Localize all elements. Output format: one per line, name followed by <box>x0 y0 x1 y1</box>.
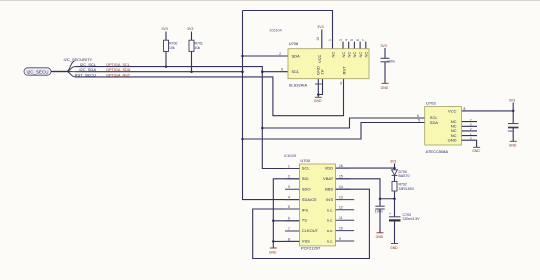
wire OPTIGA_SDA row <box>75 71 243 73</box>
svg-text:BBS: BBS <box>325 187 333 192</box>
svg-text:100n: 100n <box>387 60 395 64</box>
power 3V3 R700 <box>162 27 168 31</box>
wire R702 to battery node <box>394 191 396 217</box>
svg-text:10: 10 <box>316 37 320 41</box>
RTC right pin numbers <box>339 164 343 241</box>
svg-text:SDI: SDI <box>302 176 309 181</box>
svg-text:VBAT: VBAT <box>323 176 334 181</box>
svg-text:100n: 100n <box>508 129 515 133</box>
svg-text:3: 3 <box>288 185 290 189</box>
svg-text:12: 12 <box>339 206 343 210</box>
svg-text:SDA/CE: SDA/CE <box>302 197 317 202</box>
svg-text:6: 6 <box>417 114 419 118</box>
svg-text:3V3: 3V3 <box>187 27 193 31</box>
ground top IC TP <box>314 97 322 103</box>
rotated NC pin numbers top IC <box>328 39 365 41</box>
svg-text:4: 4 <box>345 39 349 41</box>
wire top IC GND TP pins <box>318 79 322 97</box>
bus fan-out curves <box>67 67 76 72</box>
svg-text:n.c.: n.c. <box>327 228 333 233</box>
svg-text:CLKOUT: CLKOUT <box>302 228 319 233</box>
RTC right pin names <box>323 166 334 244</box>
svg-text:NC: NC <box>341 52 346 58</box>
svg-text:RST: RST <box>341 66 346 75</box>
svg-text:ATECC508A: ATECC508A <box>426 149 449 154</box>
svg-text:TS: TS <box>302 218 307 223</box>
svg-text:SCL: SCL <box>292 69 301 74</box>
pin17 tick <box>315 83 322 85</box>
harness line <box>51 71 67 73</box>
IC U700 PCF2129T body <box>299 164 335 246</box>
wire SDA pin stub top IC <box>243 55 289 57</box>
svg-text:3V3: 3V3 <box>162 27 168 31</box>
wire diode to resistor R702 <box>394 176 396 182</box>
svg-text:IC6104: IC6104 <box>270 28 282 32</box>
svg-text:R700: R700 <box>169 41 177 45</box>
wire OPTIGA_SCL row <box>75 67 288 72</box>
ground C703 <box>390 244 398 250</box>
power 3V3 RTC column <box>390 160 396 164</box>
svg-text:NC: NC <box>352 52 357 58</box>
ground RTC chain <box>269 248 277 254</box>
svg-text:GND: GND <box>376 235 384 239</box>
diode D700 BAS70 <box>392 170 398 176</box>
svg-text:VCC: VCC <box>448 108 457 113</box>
decoupling cap column top IC <box>384 48 386 83</box>
svg-text:7: 7 <box>362 39 366 41</box>
ground ATECC pins <box>472 147 480 153</box>
svg-text:BAS70: BAS70 <box>399 174 410 178</box>
resistor R702 <box>392 182 415 192</box>
svg-text:GND: GND <box>390 246 398 250</box>
svg-text:5: 5 <box>418 119 420 123</box>
svg-text:TP: TP <box>320 69 325 74</box>
svg-text:6: 6 <box>356 39 360 41</box>
svg-text:VSS: VSS <box>302 239 310 244</box>
svg-text:15: 15 <box>339 175 343 179</box>
svg-text:1: 1 <box>288 164 290 168</box>
resistor R701 leads <box>191 32 193 72</box>
svg-text:VDD: VDD <box>325 166 334 171</box>
svg-text:9: 9 <box>339 237 341 241</box>
wire RTC TS to ground chain <box>273 220 299 222</box>
svg-text:GND: GND <box>448 138 457 143</box>
wire RTC VDD to supply column <box>336 167 395 169</box>
svg-text:2: 2 <box>279 52 281 56</box>
svg-text:5: 5 <box>288 205 290 209</box>
ground ATECC cap <box>509 141 517 147</box>
svg-text:1: 1 <box>328 39 332 41</box>
resistor R700 <box>164 40 178 51</box>
svg-text:NC: NC <box>358 52 363 58</box>
svg-text:11: 11 <box>339 216 343 220</box>
ATECC left pin stubs <box>413 118 425 123</box>
wire SDA main vertical <box>243 11 300 200</box>
svg-text:U700: U700 <box>300 158 310 163</box>
svg-text:n.c.: n.c. <box>327 218 333 223</box>
svg-text:+: + <box>389 212 391 216</box>
svg-text:SDO: SDO <box>302 187 311 192</box>
wire top IC VCC pin stub <box>321 30 323 49</box>
capacitor C703 electrolytic <box>389 212 401 222</box>
svg-text:9: 9 <box>340 81 342 85</box>
svg-text:U706: U706 <box>289 41 299 46</box>
RTC left pin numbers <box>288 164 290 241</box>
wire RTC IFS-BBS loop <box>253 189 370 258</box>
svg-text:IFS: IFS <box>302 207 309 212</box>
ATECC left pin names <box>430 115 439 125</box>
ATECC VCC wire <box>462 110 514 112</box>
resistor R700 leads <box>165 32 167 67</box>
svg-text:2: 2 <box>288 175 290 179</box>
svg-text:220m/3.3V: 220m/3.3V <box>403 217 421 221</box>
svg-text:8: 8 <box>281 68 283 72</box>
svg-text:3V3: 3V3 <box>381 44 387 48</box>
svg-text:n.c.: n.c. <box>327 207 333 212</box>
svg-text:3V3: 3V3 <box>390 160 396 164</box>
svg-text:RST_SECU: RST_SECU <box>75 72 96 77</box>
svg-text:U703: U703 <box>426 101 436 106</box>
svg-text:33R/150V: 33R/150V <box>399 187 415 191</box>
wire supply column VCC to diode <box>394 164 396 170</box>
svg-text:VCC: VCC <box>317 54 322 63</box>
wire SDA top route to pin1 NC <box>243 11 333 49</box>
svg-text:100n: 100n <box>375 210 383 214</box>
wire VBAT backup cap leads <box>379 199 381 233</box>
svg-text:R701: R701 <box>195 41 203 45</box>
svg-text:4: 4 <box>288 196 290 200</box>
wire RTC VSS to ground chain <box>273 240 299 242</box>
wire C703 to GND <box>394 222 396 244</box>
svg-text:10: 10 <box>339 227 343 231</box>
resistor R701 <box>189 40 203 51</box>
svg-text:IC6105: IC6105 <box>284 154 296 158</box>
svg-text:OPTIGA_SCL: OPTIGA_SCL <box>106 63 130 67</box>
svg-text:3V3: 3V3 <box>317 25 323 29</box>
svg-text:5: 5 <box>350 39 354 41</box>
ATECC pin numbers <box>417 107 472 141</box>
capacitor 100n VBAT <box>375 206 384 209</box>
svg-text:GND: GND <box>269 250 277 254</box>
wire RTC VBAT to battery node <box>336 179 395 199</box>
wire top IC NC stubs <box>343 42 366 49</box>
wire SCL branch to ATECC <box>262 118 424 128</box>
power 3V3 R701 <box>187 27 193 31</box>
rotated NC names top IC <box>330 52 368 58</box>
svg-text:PCF2129T: PCF2129T <box>301 246 321 251</box>
IC U703 ATECC508A body <box>425 107 462 145</box>
svg-text:NC: NC <box>347 52 352 58</box>
svg-text:14: 14 <box>339 185 343 189</box>
wire RTC SDI ground chain <box>273 179 299 248</box>
svg-text:OPTIGA_SDA: OPTIGA_SDA <box>106 68 131 72</box>
svg-text:GND: GND <box>314 99 322 103</box>
svg-text:16: 16 <box>339 164 343 168</box>
wire SCL vertical to RTC pin1 <box>262 72 299 169</box>
svg-text:SDA: SDA <box>430 120 439 125</box>
svg-text:10k: 10k <box>195 46 201 50</box>
svg-text:NC: NC <box>330 52 335 58</box>
svg-text:INTi: INTi <box>326 197 333 202</box>
svg-text:GND: GND <box>509 144 517 148</box>
svg-text:I2C_SECU: I2C_SECU <box>27 69 49 74</box>
svg-text:13: 13 <box>339 196 343 200</box>
svg-text:GND: GND <box>381 86 389 90</box>
ATECC cap column <box>512 103 514 142</box>
IC U706 SLS32AIA body <box>288 49 369 79</box>
ATECC GND pin route <box>462 140 477 147</box>
svg-text:n.c.: n.c. <box>327 239 333 244</box>
svg-text:10k: 10k <box>169 46 175 50</box>
svg-text:SLS32AIA: SLS32AIA <box>289 83 308 88</box>
power 3V3 decoupling <box>381 44 387 48</box>
ground 100n VBAT <box>376 233 384 239</box>
wire OPTIGA_RST row <box>75 77 344 116</box>
svg-text:NC: NC <box>364 52 369 58</box>
svg-text:3: 3 <box>339 39 343 41</box>
ATECC right pin names <box>448 108 457 142</box>
ATECC NC pin stubs <box>462 122 478 136</box>
svg-text:8: 8 <box>464 107 466 111</box>
svg-text:SDA: SDA <box>292 53 301 58</box>
svg-text:7: 7 <box>288 227 290 231</box>
power 3V3 ATECC <box>509 99 515 103</box>
RTC left pin names <box>302 166 319 244</box>
svg-text:3V3: 3V3 <box>509 99 515 103</box>
svg-text:8: 8 <box>288 237 290 241</box>
RTC pin stubs <box>285 168 354 241</box>
svg-text:6: 6 <box>288 217 290 221</box>
svg-text:OPTIGA_RST: OPTIGA_RST <box>106 73 131 77</box>
power 3V3 top IC <box>317 25 323 29</box>
harness connector I2C_SECU oval <box>24 68 51 75</box>
capacitor ATECC decoupling <box>508 124 519 133</box>
ground decoupling top IC <box>381 83 389 90</box>
svg-text:GND: GND <box>472 149 480 153</box>
wire SDA branch to ATECC <box>243 123 425 140</box>
svg-text:SCL: SCL <box>302 166 311 171</box>
top screenshot edge line <box>0 0 540 2</box>
capacitor decoupling top IC <box>381 58 395 63</box>
